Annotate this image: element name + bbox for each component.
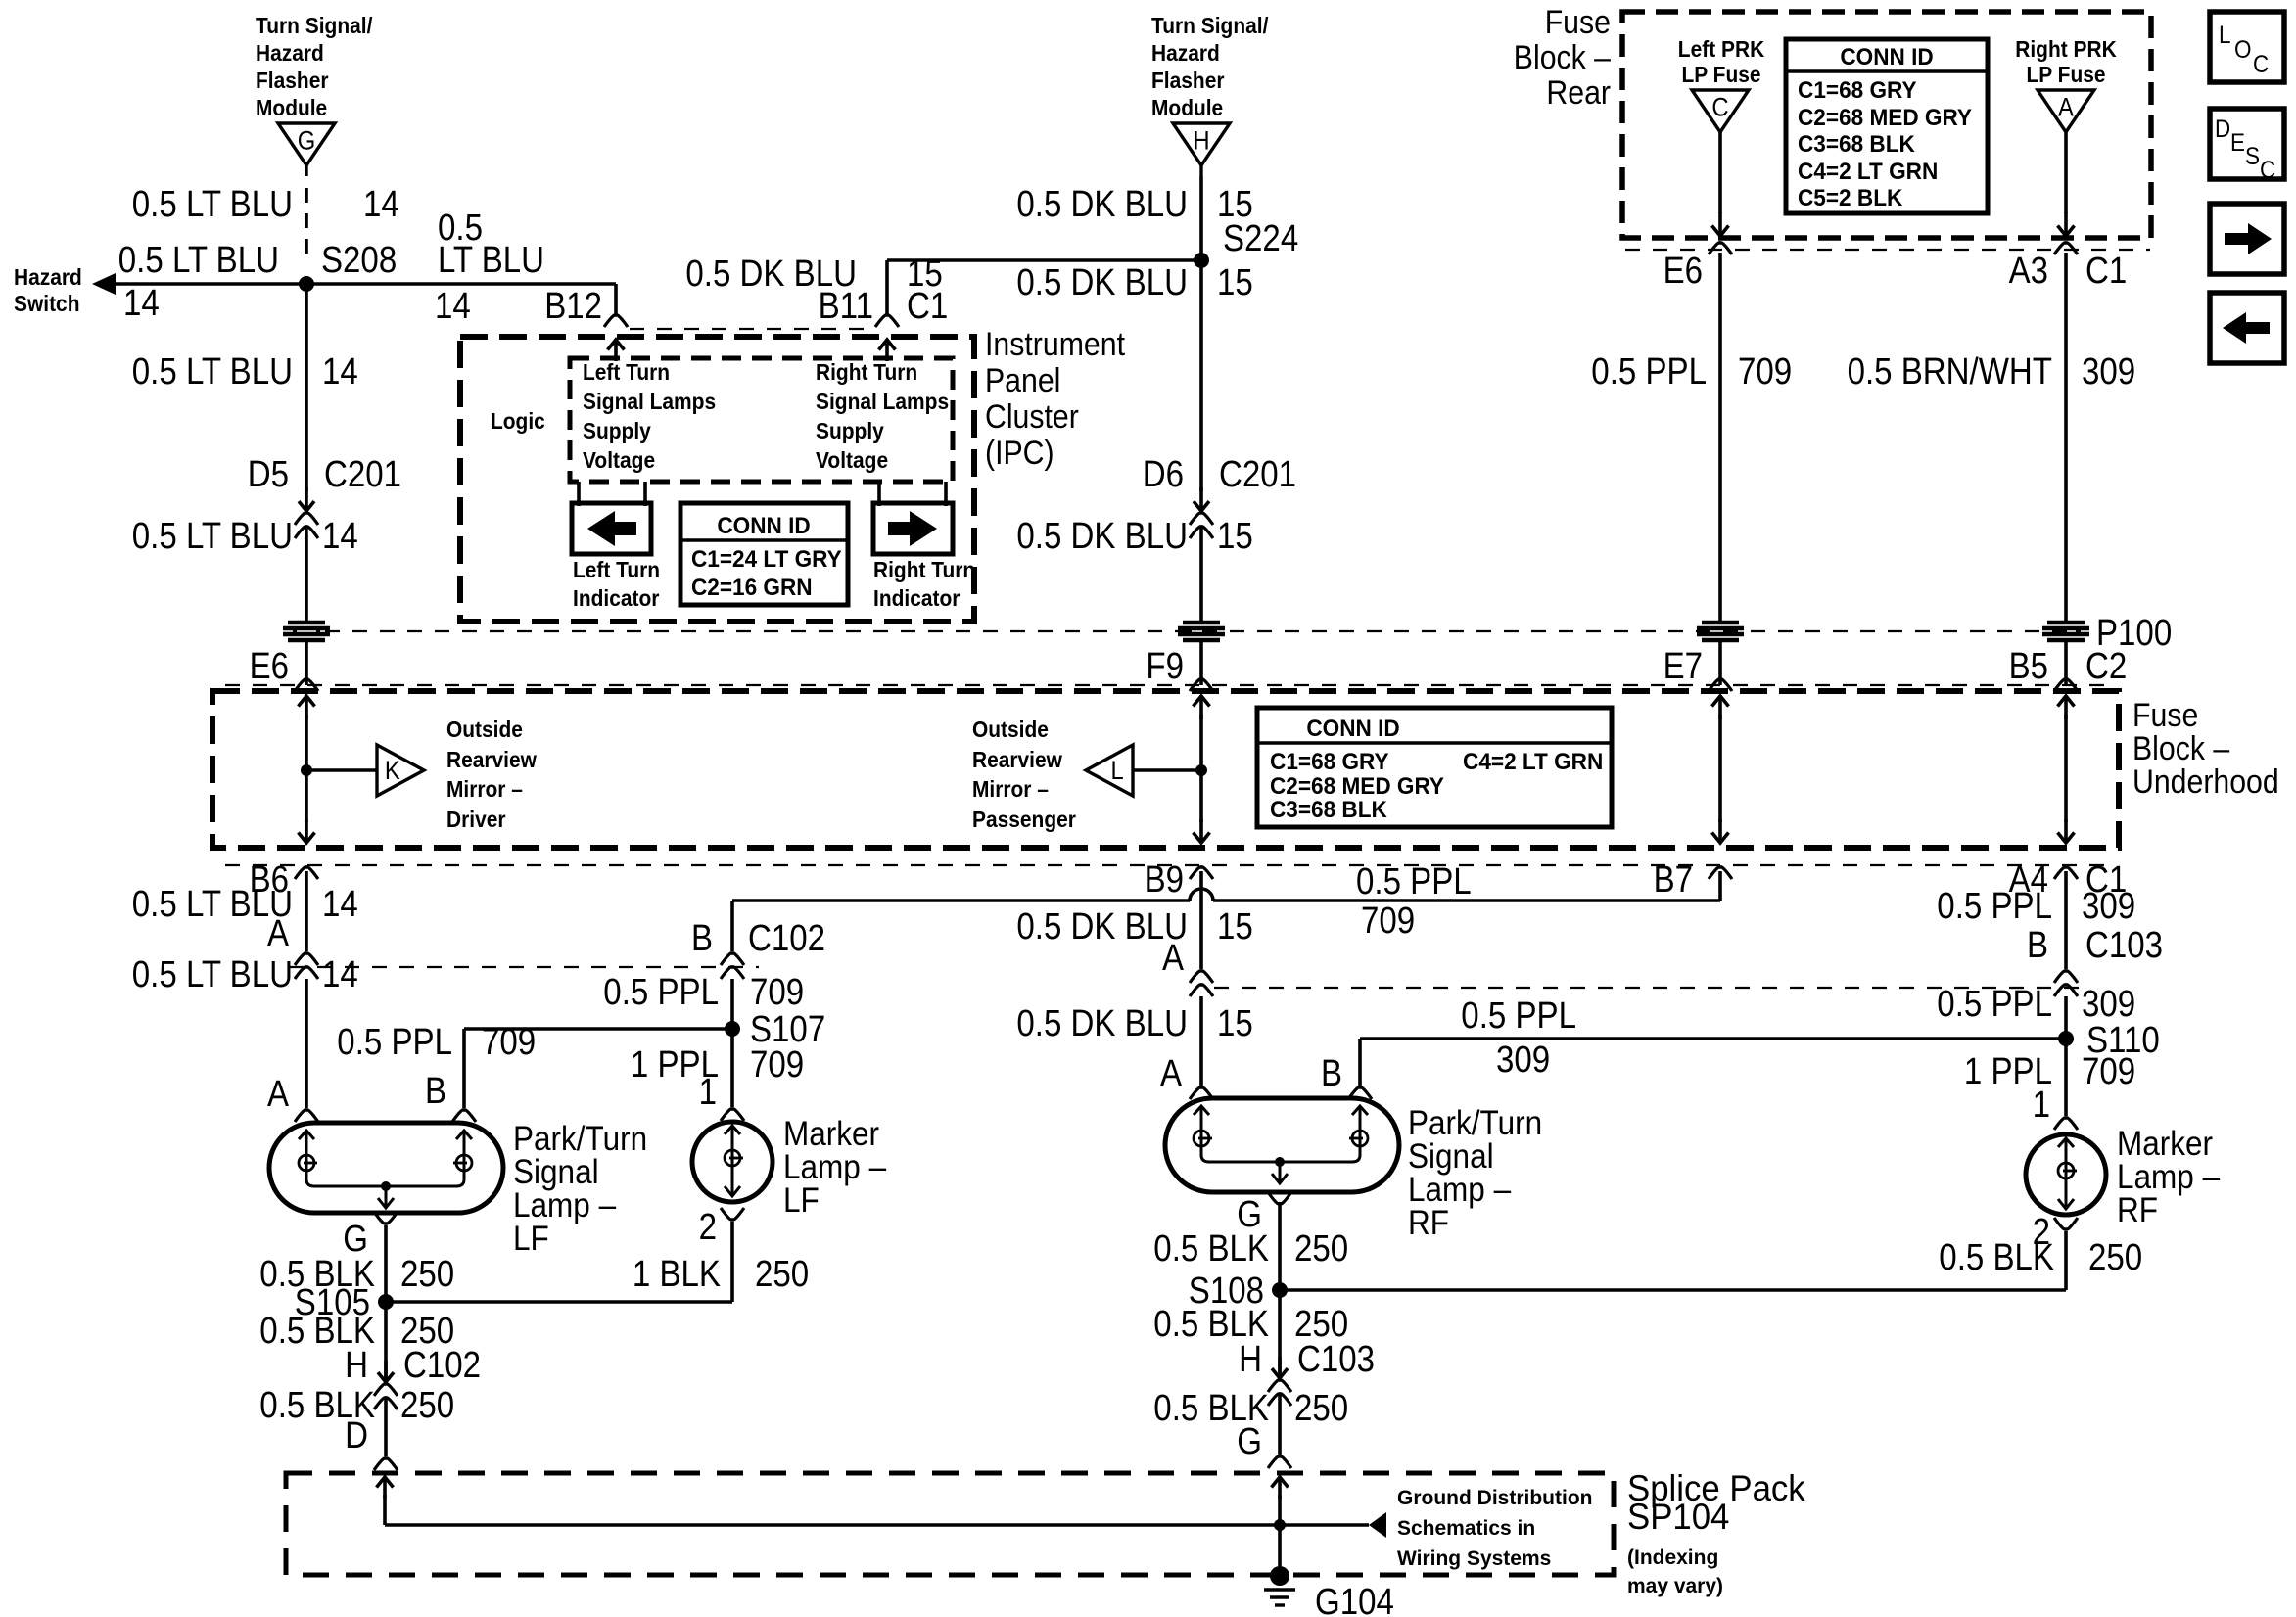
Marker Lamp - RF (bulb) [2026, 1134, 2106, 1215]
svg-text:0.5 PPL: 0.5 PPL [1937, 984, 2052, 1025]
wire: S108 down to C103 pin H [1278, 1290, 1282, 1374]
svg-text:Schematics in: Schematics in [1397, 1517, 1535, 1540]
svg-text:309: 309 [2082, 886, 2135, 927]
svg-text:1 BLK: 1 BLK [633, 1254, 721, 1295]
svg-text:Driver: Driver [446, 807, 506, 832]
svg-text:Outside: Outside [972, 716, 1049, 742]
svg-text:0.5 PPL: 0.5 PPL [1591, 351, 1707, 393]
svg-text:Turn Signal/: Turn Signal/ [256, 13, 373, 38]
splice S107 [725, 1021, 740, 1037]
svg-text:B12: B12 [544, 286, 602, 327]
splice S224 [1194, 253, 1209, 268]
pin arrow into IPC at B11 [885, 340, 889, 361]
right indicator hanger lines [877, 482, 881, 506]
svg-text:0.5 PPL: 0.5 PPL [1937, 886, 2052, 927]
connector line C103 (dashed) [1214, 987, 2084, 989]
svg-text:Signal Lamps: Signal Lamps [816, 389, 949, 414]
connector row above underhood box (dashed) [225, 684, 2115, 686]
svg-text:C4=2 LT GRN: C4=2 LT GRN [1463, 749, 1603, 775]
wire: S224 down to D6/C201 [1199, 260, 1203, 491]
splice pack internal bus wire [385, 1523, 1369, 1527]
Fuse Block - Underhood dashed box [212, 691, 2119, 848]
underhood pass-through wire on E7 chain [1718, 696, 1722, 719]
svg-text:Supply: Supply [583, 418, 651, 443]
splice S110 [2058, 1031, 2074, 1046]
Park/Turn Signal Lamp - RF (dual filament bulb) [1165, 1098, 1399, 1192]
svg-text:Rearview: Rearview [446, 747, 537, 772]
wire: C201 to P100 on left chain [305, 527, 308, 621]
svg-text:A: A [2058, 93, 2074, 122]
Fuse Block - Rear dashed box [1622, 12, 2151, 238]
svg-text:C102: C102 [748, 918, 825, 959]
svg-text:H: H [1239, 1339, 1262, 1380]
Marker Lamp - LF (bulb) [692, 1122, 773, 1202]
fuse triangle A (Right PRK LP Fuse) [2038, 90, 2094, 132]
svg-text:250: 250 [400, 1254, 454, 1295]
svg-text:G: G [1237, 1421, 1262, 1462]
svg-text:E7: E7 [1663, 646, 1703, 687]
svg-text:0.5 BRN/WHT: 0.5 BRN/WHT [1848, 351, 2052, 393]
svg-text:CONN ID: CONN ID [1306, 716, 1399, 742]
svg-text:G104: G104 [1315, 1582, 1394, 1617]
wires from P100 to underhood fuse block [305, 640, 308, 685]
CONN ID table (rear fuse block) [1786, 39, 1988, 213]
svg-text:S: S [2245, 143, 2260, 170]
wire: bus down to ground G104 [1278, 1525, 1282, 1572]
underhood pass-through wire on left chain [305, 696, 308, 719]
svg-text:Outside: Outside [446, 716, 523, 742]
svg-text:Passenger: Passenger [972, 807, 1076, 832]
svg-text:14: 14 [322, 954, 358, 995]
svg-text:C103: C103 [2085, 925, 2163, 966]
svg-text:Flasher: Flasher [256, 68, 329, 93]
legend box right-arrow [2210, 204, 2284, 274]
svg-text:Wiring Systems: Wiring Systems [1397, 1548, 1551, 1570]
svg-text:C: C [2260, 157, 2275, 184]
svg-text:E6: E6 [1663, 251, 1703, 292]
svg-text:2: 2 [2033, 1212, 2050, 1253]
connector row P100 (dashed) [325, 630, 2081, 632]
svg-text:A3: A3 [2009, 251, 2048, 292]
wire: S110 left to lamp RF pin B (0.5 PPL 309) [1360, 1037, 2066, 1040]
inline connector symbol P100 on B5 chain [2047, 621, 2085, 625]
right turn indicator box with right arrow [873, 503, 953, 554]
svg-text:250: 250 [1294, 1228, 1348, 1270]
svg-text:SP104: SP104 [1627, 1497, 1729, 1537]
wire: C103 H to splice pack G [1278, 1394, 1282, 1455]
wire: C102 H to splice pack D [384, 1398, 388, 1456]
svg-text:A: A [267, 913, 290, 954]
CONN ID table (IPC): C1=24 LT GRY, C2=16 GRN [680, 503, 848, 605]
svg-text:Switch: Switch [14, 291, 80, 316]
connector line C102 (dashed) [290, 966, 759, 968]
wire: B6 to C102 pin A [305, 871, 308, 951]
svg-text:H: H [345, 1345, 368, 1386]
svg-text:14: 14 [123, 283, 160, 324]
svg-text:E: E [2230, 129, 2245, 157]
svg-text:C1=24 LT GRY: C1=24 LT GRY [691, 546, 842, 573]
svg-text:(Indexing: (Indexing [1627, 1547, 1718, 1569]
svg-text:H: H [1193, 126, 1209, 156]
svg-text:Voltage: Voltage [816, 447, 888, 473]
wire: C103 A down to Park/Turn lamp RF pin A [1199, 996, 1203, 1086]
svg-text:0.5 PPL: 0.5 PPL [337, 1022, 452, 1063]
svg-text:Underhood: Underhood [2132, 763, 2279, 801]
svg-text:C1: C1 [907, 286, 948, 327]
svg-text:14: 14 [363, 184, 399, 225]
svg-text:0.5 LT BLU: 0.5 LT BLU [132, 954, 293, 995]
wire: S108 right and up to marker lamp RF pin 2 (0.5 BLK 250) [1280, 1288, 2066, 1292]
wire: S110 down to marker lamp RF pin 1 [2064, 1039, 2068, 1116]
svg-text:LF: LF [513, 1220, 549, 1258]
pin arrow into IPC at B12 [614, 340, 618, 361]
underhood pass-through wire on middle chain [1199, 696, 1203, 719]
svg-text:D: D [2215, 115, 2230, 143]
connector row below underhood box (dashed) [225, 864, 2115, 866]
svg-text:O: O [2234, 36, 2252, 64]
splice S108 [1272, 1282, 1288, 1298]
pin 2 of marker lamp LF [721, 1208, 744, 1220]
svg-text:14: 14 [322, 516, 358, 557]
svg-text:C3=68 BLK: C3=68 BLK [1270, 797, 1387, 823]
svg-text:C102: C102 [403, 1345, 481, 1386]
ground G104 [1270, 1566, 1289, 1586]
connector row under rear fuse block (dashed) [1625, 249, 2150, 251]
svg-text:(IPC): (IPC) [985, 435, 1054, 472]
svg-text:C4=2 LT GRN: C4=2 LT GRN [1798, 159, 1938, 185]
svg-text:LP Fuse: LP Fuse [2027, 62, 2106, 87]
svg-text:2: 2 [699, 1207, 717, 1248]
svg-text:1: 1 [699, 1072, 717, 1113]
splice S208 [299, 276, 314, 292]
svg-text:250: 250 [755, 1254, 809, 1295]
underhood pass-through wire on B5 chain [2064, 696, 2068, 719]
junction at G104 riser [1274, 1519, 1286, 1531]
wire: lamp LF G to S105 [384, 1225, 388, 1302]
wire: S208 right to IPC pin B12 [306, 282, 616, 286]
legend box LOC [2210, 12, 2284, 82]
svg-text:L: L [1111, 756, 1124, 785]
splice S105 [378, 1294, 394, 1310]
connector chevron at B12 [604, 315, 628, 327]
svg-text:Panel: Panel [985, 362, 1060, 399]
wire: C103 B down to S110 [2064, 996, 2068, 1039]
svg-text:C103: C103 [1297, 1339, 1375, 1380]
entry arrow from G (RF ground chain) [1278, 1477, 1282, 1499]
svg-text:0.5 DK BLU: 0.5 DK BLU [1016, 1003, 1188, 1044]
triangle L (Outside Rearview Mirror - Passenger) [1086, 745, 1133, 796]
svg-text:309: 309 [1496, 1039, 1550, 1081]
svg-text:0.5 BLK: 0.5 BLK [1153, 1228, 1269, 1270]
svg-text:RF: RF [1408, 1204, 1449, 1242]
wire: C201 to P100 on middle chain [1199, 527, 1203, 621]
svg-text:B: B [2027, 925, 2048, 966]
svg-text:0.5 LT BLU: 0.5 LT BLU [132, 351, 293, 393]
svg-text:Voltage: Voltage [583, 447, 655, 473]
wire: S105 down to C102 pin H [384, 1302, 388, 1378]
svg-text:709: 709 [482, 1022, 536, 1063]
svg-text:Hazard: Hazard [14, 264, 82, 290]
svg-text:Mirror –: Mirror – [446, 776, 523, 802]
svg-text:CONN ID: CONN ID [717, 513, 810, 539]
svg-text:B7: B7 [1654, 859, 1693, 901]
Instrument Panel Cluster (IPC) dashed box [460, 337, 974, 622]
svg-text:309: 309 [2082, 984, 2135, 1025]
svg-text:Mirror –: Mirror – [972, 776, 1049, 802]
svg-text:C2=68 MED GRY: C2=68 MED GRY [1798, 105, 1972, 131]
wire: E6 to P100 (left rear chain) [1718, 253, 1722, 621]
Splice Pack SP104 dashed box [286, 1473, 1614, 1575]
svg-text:709: 709 [750, 972, 804, 1013]
svg-text:F9: F9 [1146, 646, 1184, 687]
wire: S107 down to marker lamp LF pin 1 [730, 1029, 734, 1107]
svg-text:C2=16 GRN: C2=16 GRN [691, 575, 813, 601]
svg-text:C1=68 GRY: C1=68 GRY [1270, 749, 1389, 775]
triangle K (Outside Rearview Mirror - Driver) [377, 745, 424, 796]
svg-text:15: 15 [1217, 262, 1253, 303]
legend box left-arrow [2210, 293, 2284, 363]
svg-text:B: B [425, 1071, 446, 1112]
svg-text:0.5 LT BLU: 0.5 LT BLU [132, 184, 293, 225]
svg-text:Turn Signal/: Turn Signal/ [1151, 13, 1269, 38]
wire: fuse C down to rear block edge [1718, 132, 1722, 213]
svg-text:D: D [345, 1415, 368, 1456]
svg-text:0.5 LT BLU: 0.5 LT BLU [132, 516, 293, 557]
svg-text:C3=68 BLK: C3=68 BLK [1798, 131, 1915, 158]
junction to mirror K [301, 764, 312, 776]
svg-text:G: G [298, 126, 316, 156]
svg-text:1: 1 [2033, 1085, 2050, 1126]
svg-text:Flasher: Flasher [1151, 68, 1225, 93]
connector triangle H (Turn Signal/Hazard Flasher Module) [1173, 123, 1230, 165]
fuse triangle C (Left PRK LP Fuse) [1692, 90, 1749, 132]
pin G of lamp LF [374, 1212, 398, 1224]
svg-text:CONN ID: CONN ID [1840, 44, 1933, 70]
connector chevron at B11 [875, 315, 899, 327]
svg-text:LF: LF [783, 1181, 820, 1220]
svg-text:C201: C201 [324, 454, 401, 495]
svg-text:B5: B5 [2009, 646, 2048, 687]
svg-text:Module: Module [1151, 95, 1223, 120]
wire: lamp RF G to S108 [1278, 1202, 1282, 1290]
svg-text:C2=68 MED GRY: C2=68 MED GRY [1270, 773, 1444, 800]
svg-text:D6: D6 [1143, 454, 1184, 495]
svg-text:Right Turn: Right Turn [873, 557, 975, 582]
wire: B7 down and left to connector C102 pin B (0.5 PPL 709), hops over middle wire [1718, 871, 1722, 901]
svg-text:C: C [1711, 93, 1728, 122]
svg-text:Left Turn: Left Turn [583, 359, 670, 385]
svg-text:309: 309 [2082, 351, 2135, 393]
svg-text:Fuse: Fuse [1545, 4, 1611, 41]
svg-text:Rearview: Rearview [972, 747, 1062, 772]
connector C102 chevrons on left chain [295, 953, 318, 965]
svg-text:S208: S208 [321, 240, 397, 281]
wire: A3/C1 to P100 (right rear chain) [2064, 253, 2068, 621]
svg-text:S224: S224 [1223, 218, 1298, 259]
svg-text:D5: D5 [248, 454, 289, 495]
svg-text:250: 250 [400, 1385, 454, 1426]
wire: S208 down to D5/C201 [305, 284, 308, 491]
wire: A4/C1 to C103 pin B [2064, 871, 2068, 969]
svg-text:14: 14 [435, 286, 471, 327]
svg-text:may vary): may vary) [1627, 1575, 1723, 1597]
entry arrow from D (LF ground chain) [383, 1477, 387, 1499]
svg-text:Block –: Block – [1514, 39, 1611, 76]
svg-text:709: 709 [1361, 901, 1415, 942]
svg-text:250: 250 [1294, 1388, 1348, 1429]
svg-text:A: A [1162, 938, 1185, 979]
svg-text:0.5 PPL: 0.5 PPL [603, 972, 719, 1013]
connector C103 chevrons on right chain [2054, 971, 2078, 983]
svg-text:Right Turn: Right Turn [816, 359, 917, 385]
svg-text:14: 14 [322, 884, 358, 925]
wire: S224 left to IPC pin B11 [887, 258, 1201, 262]
svg-text:C5=2 BLK: C5=2 BLK [1798, 185, 1903, 211]
svg-text:Left Turn: Left Turn [573, 557, 660, 582]
svg-text:Module: Module [256, 95, 327, 120]
wire: S107 left to lamp LF pin B [464, 1027, 732, 1031]
svg-text:15: 15 [1217, 1003, 1253, 1044]
wire: module H to S224 [1199, 176, 1203, 260]
wire: B9 to C103 pin A [1199, 871, 1203, 969]
wire: fuse A down to rear block edge [2064, 132, 2068, 213]
connector C102 chevrons on S107 chain [721, 953, 744, 965]
svg-text:K: K [385, 756, 400, 785]
inline connector symbol P100 on left chain [288, 621, 325, 625]
svg-text:Supply: Supply [816, 418, 884, 443]
svg-text:B: B [691, 918, 713, 959]
wire: C102 B down to S107 [730, 979, 734, 1029]
svg-text:C1: C1 [2085, 251, 2127, 292]
svg-text:0.5 PPL: 0.5 PPL [1461, 995, 1576, 1037]
wire: C102 A down to Park/Turn lamp LF pin A [305, 979, 308, 1108]
wire: 0.5 LT BLU 14 from module G to S208 (dashed) [305, 188, 308, 262]
svg-text:709: 709 [2082, 1051, 2135, 1092]
svg-text:E6: E6 [250, 646, 289, 687]
svg-text:0.5 DK BLU: 0.5 DK BLU [1016, 184, 1188, 225]
svg-text:Signal Lamps: Signal Lamps [583, 389, 716, 414]
IPC internal supply-voltage dashed box [570, 358, 953, 482]
svg-text:14: 14 [322, 351, 358, 393]
svg-text:15: 15 [1217, 906, 1253, 947]
svg-text:Indicator: Indicator [873, 585, 960, 611]
legend box DESC [2210, 109, 2284, 179]
svg-text:Logic: Logic [491, 408, 545, 434]
svg-text:Instrument: Instrument [985, 326, 1125, 363]
svg-text:Right PRK: Right PRK [2015, 36, 2117, 62]
off-page arrow to ground distribution schematics [1369, 1512, 1386, 1538]
svg-text:B: B [1321, 1053, 1342, 1094]
svg-text:0.5 LT BLU: 0.5 LT BLU [118, 240, 279, 281]
svg-text:C1=68 GRY: C1=68 GRY [1798, 77, 1917, 104]
svg-text:LP Fuse: LP Fuse [1682, 62, 1761, 87]
svg-text:250: 250 [2088, 1237, 2142, 1278]
wire: S208 to Hazard Switch (left arrow) [116, 282, 306, 286]
left indicator hanger lines [577, 482, 581, 506]
svg-text:C201: C201 [1219, 454, 1296, 495]
connector triangle G (Turn Signal/Hazard Flasher Module) [278, 123, 335, 165]
svg-text:Block –: Block – [2132, 730, 2229, 767]
Park/Turn Signal Lamp - LF (dual filament bulb) [269, 1123, 503, 1213]
svg-text:B9: B9 [1145, 859, 1184, 901]
svg-text:L: L [2219, 22, 2231, 49]
pin 2 of marker lamp RF [2054, 1218, 2078, 1229]
svg-text:709: 709 [750, 1044, 804, 1086]
CONN ID table (underhood): C1..C4 [1257, 708, 1612, 827]
wire: S105 right and up to marker lamp LF pin 2 (1 BLK 250) [386, 1300, 732, 1304]
left turn indicator box with left arrow [572, 503, 651, 554]
svg-text:0.5 DK BLU: 0.5 DK BLU [1016, 262, 1188, 303]
pin G of lamp RF [1268, 1192, 1291, 1204]
svg-text:A: A [1160, 1053, 1183, 1094]
inline connector symbol P100 on E7 chain [1702, 621, 1739, 625]
svg-text:Ground Distribution: Ground Distribution [1397, 1487, 1593, 1509]
svg-text:A: A [267, 1074, 290, 1115]
svg-text:0.5 PPL: 0.5 PPL [1356, 861, 1472, 902]
svg-text:B11: B11 [819, 286, 873, 327]
svg-text:15: 15 [1217, 516, 1253, 557]
svg-text:RF: RF [2117, 1191, 2158, 1229]
svg-text:C: C [2253, 51, 2269, 78]
svg-text:Rear: Rear [1546, 74, 1611, 112]
connector line C1 between B12 and B11 (dashed) [630, 328, 874, 330]
inline connector symbol P100 on middle chain [1183, 621, 1220, 625]
svg-text:Cluster: Cluster [985, 398, 1079, 436]
connector C103 chevrons on middle chain [1190, 971, 1213, 983]
svg-text:Left PRK: Left PRK [1678, 36, 1765, 62]
svg-text:Indicator: Indicator [573, 585, 659, 611]
svg-text:Hazard: Hazard [1151, 40, 1220, 66]
svg-text:Fuse: Fuse [2132, 697, 2198, 734]
junction to mirror L [1195, 764, 1207, 776]
svg-text:C2: C2 [2085, 646, 2127, 687]
svg-text:LT BLU: LT BLU [438, 240, 544, 281]
svg-text:709: 709 [1738, 351, 1792, 393]
svg-text:0.5 DK BLU: 0.5 DK BLU [1016, 516, 1188, 557]
svg-text:Hazard: Hazard [256, 40, 324, 66]
